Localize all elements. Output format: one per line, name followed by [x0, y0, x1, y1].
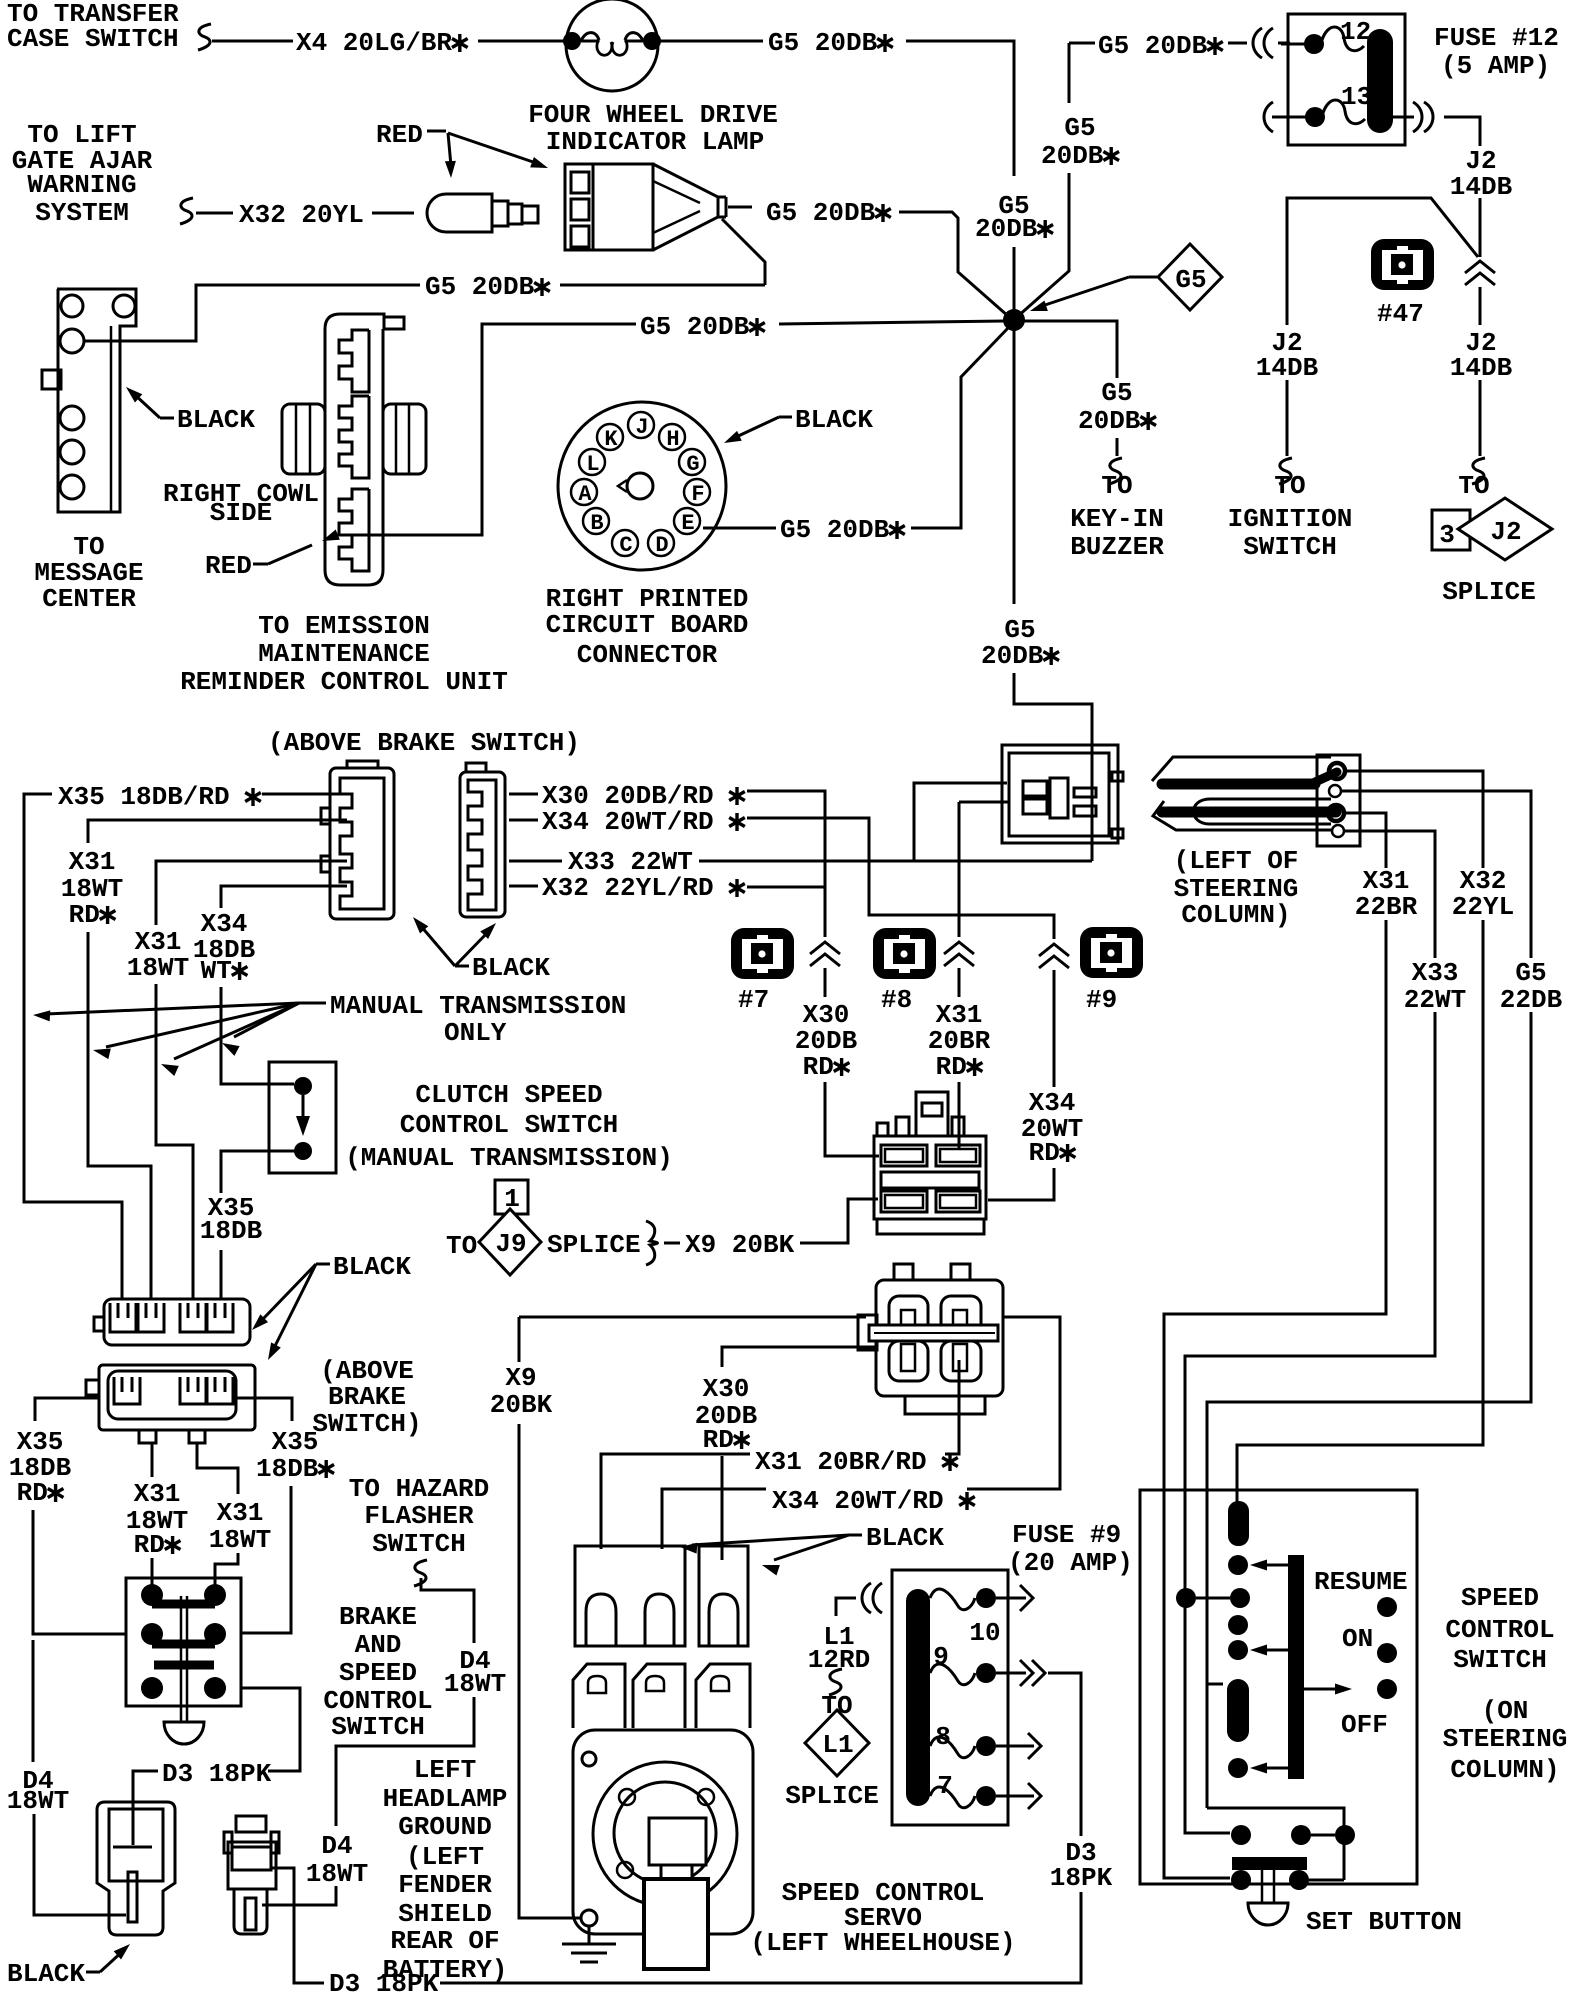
message center connector body — [57, 289, 136, 512]
wire X30 to chevrons and relay — [747, 791, 825, 937]
switch contact bars — [152, 1600, 215, 1609]
svg-text:J9: J9 — [495, 1229, 526, 1259]
junction node G5 splice dot — [1003, 309, 1025, 331]
bracket (X9) — [646, 1221, 658, 1265]
servo lower block — [644, 1879, 708, 1969]
svg-text:CASE SWITCH: CASE SWITCH — [7, 24, 179, 54]
svg-text:G5 20DB: G5 20DB — [780, 515, 890, 545]
svg-text:8: 8 — [935, 1722, 951, 1752]
wire X34 lower run to clutch switch — [221, 987, 294, 1084]
speed control connector (2x2) body — [1002, 745, 1118, 843]
fuse 9 left chevrons — [862, 1583, 871, 1613]
splice J2 symbol square 3 — [1432, 510, 1470, 550]
servo center block — [649, 1818, 706, 1865]
switch plunger cap — [164, 1722, 204, 1744]
lamp #9 icon — [1080, 927, 1143, 978]
svg-text:A: A — [578, 482, 592, 507]
bulb (four wheel drive lamp socket) — [427, 194, 492, 232]
svg-text:22DB: 22DB — [1500, 985, 1563, 1015]
svg-text:SPLICE: SPLICE — [1442, 577, 1536, 607]
wire X33 long run — [699, 860, 1092, 863]
svg-text:G5: G5 — [1064, 113, 1095, 143]
svg-text:GROUND: GROUND — [398, 1812, 492, 1842]
svg-text:D4: D4 — [321, 1831, 352, 1861]
svg-text:X32 20YL: X32 20YL — [239, 200, 364, 230]
lamp filament loops — [581, 33, 599, 41]
svg-text:18WT: 18WT — [209, 1525, 271, 1555]
svg-text:D3 18PK: D3 18PK — [162, 1759, 272, 1789]
svg-text:BLACK: BLACK — [472, 953, 550, 983]
splice J9 square 1 — [495, 1180, 528, 1214]
wire to X9 20BK — [664, 1242, 680, 1245]
wire fuse branch lower segment — [1017, 173, 1069, 317]
splice J9 diamond — [479, 1209, 541, 1275]
splice L1 diamond — [805, 1710, 869, 1776]
svg-text:20DB: 20DB — [1041, 141, 1104, 171]
svg-text:X31: X31 — [69, 847, 116, 877]
fuse bus bar — [1367, 29, 1393, 133]
svg-text:(MANUAL TRANSMISSION): (MANUAL TRANSMISSION) — [345, 1143, 673, 1173]
wire X35 RD* down to brake switch — [33, 1510, 126, 1634]
wire C2 left to X35 18DB RD* — [35, 1398, 100, 1421]
wire X32 down to switch — [1237, 920, 1483, 1503]
wire fuse 9 to L1 — [836, 1598, 856, 1616]
svg-text:D: D — [655, 533, 668, 558]
svg-text:J2: J2 — [1490, 517, 1521, 547]
manual transmission pointer lines — [299, 1002, 326, 1005]
steering connector terminals — [1329, 763, 1345, 779]
svg-text:CLUTCH SPEED: CLUTCH SPEED — [415, 1080, 602, 1110]
wire J2 left branch with diagonal — [1287, 198, 1478, 325]
wire junction up segment — [1013, 247, 1016, 312]
svg-text:SPEED: SPEED — [339, 1658, 417, 1688]
wire X31 RD* lower run — [88, 932, 151, 1299]
wire X35 18DB to connector pin — [220, 1250, 223, 1299]
fuse 9 pin 9 exit to D3 — [996, 1672, 1026, 1675]
svg-text:(5 AMP): (5 AMP) — [1441, 51, 1550, 81]
pcb center key — [627, 473, 653, 499]
RED arrow to lamp connector — [448, 133, 536, 163]
wire X31 22BR from terminal — [1344, 813, 1386, 868]
right connector pin comb — [468, 780, 496, 910]
pcb pin H — [659, 424, 685, 450]
svg-text:RD: RD — [703, 1425, 734, 1455]
wire to indicator lamp — [478, 40, 566, 43]
wire junction down — [1013, 330, 1016, 604]
indicator lamp connector body — [565, 164, 593, 250]
diagonal junction to circle-E branch — [911, 327, 1009, 528]
svg-text:COLUMN): COLUMN) — [1450, 1755, 1559, 1785]
left connector pin comb — [340, 778, 384, 909]
svg-text:18WT: 18WT — [444, 1669, 506, 1699]
svg-text:X34 20WT/RD: X34 20WT/RD — [542, 807, 714, 837]
svg-text:BLACK: BLACK — [333, 1252, 411, 1282]
steering cable bar 2 — [1162, 807, 1336, 818]
wire X35 18DB* down to brake switch right — [241, 1486, 291, 1633]
connector C2 above brake switch — [99, 1365, 255, 1430]
wire C2 pin1 to brake switch — [151, 1443, 154, 1477]
fuse 13 terminal dot — [1305, 107, 1325, 127]
hazard flasher squiggle — [414, 1560, 427, 1586]
svg-text:G5: G5 — [1515, 958, 1546, 988]
svg-text:WT: WT — [201, 956, 232, 986]
indicator lamp connector nose — [653, 164, 718, 250]
wire X31 18WT lower run — [156, 984, 193, 1299]
ground symbol — [562, 1943, 616, 1946]
wire X4 to lamp — [212, 40, 293, 43]
svg-text:10: 10 — [969, 1618, 1000, 1648]
servo terminal post 1 — [573, 1664, 625, 1728]
BLACK servo arrows — [849, 1534, 862, 1537]
wire X34 into block — [988, 1168, 1054, 1200]
block center tab — [916, 1092, 948, 1136]
svg-text:KEY-IN: KEY-IN — [1070, 504, 1164, 534]
svg-text:X31 20BR/RD: X31 20BR/RD — [755, 1447, 927, 1477]
svg-text:B: B — [590, 511, 603, 536]
svg-text:SYSTEM: SYSTEM — [35, 198, 129, 228]
svg-text:X9: X9 — [505, 1363, 536, 1393]
svg-text:BATTERY): BATTERY) — [383, 1955, 508, 1985]
wire key-in buzzer branch squiggle — [1109, 458, 1122, 484]
svg-text:18WT: 18WT — [7, 1786, 69, 1816]
svg-text:REAR OF: REAR OF — [390, 1926, 499, 1956]
svg-text:RD: RD — [936, 1052, 967, 1082]
set button cap — [1248, 1903, 1288, 1925]
wire C2 pin2 jog to brake switch — [197, 1443, 238, 1494]
svg-text:OFF: OFF — [1341, 1710, 1388, 1740]
fuse 13 element wave — [1323, 100, 1365, 124]
RED arrow to bulb — [427, 130, 446, 133]
wire label to pin E — [703, 527, 776, 530]
svg-text:X33: X33 — [1412, 958, 1459, 988]
svg-text:ON: ON — [1342, 1624, 1373, 1654]
fuse #12 box — [1288, 14, 1405, 145]
svg-text:C: C — [619, 533, 632, 558]
block top tabs — [877, 1123, 888, 1136]
fuse 9 pin 7 exit — [996, 1795, 1034, 1798]
svg-text:20DB: 20DB — [975, 214, 1038, 244]
splice J2 diamond — [1458, 498, 1552, 560]
wire X31 18WT corner — [156, 861, 347, 925]
contact dot with arrow (resume) — [1228, 1555, 1248, 1575]
wire X34 staircase right — [747, 818, 1054, 939]
svg-text:18WT: 18WT — [306, 1859, 368, 1889]
svg-text:CONNECTOR: CONNECTOR — [577, 640, 718, 670]
switch contact capsule 1 — [1228, 1501, 1249, 1546]
svg-text:G5 20DB: G5 20DB — [425, 272, 535, 302]
svg-text:BLACK: BLACK — [795, 405, 873, 435]
svg-text:G5 20DB: G5 20DB — [640, 312, 750, 342]
wire G5 22DB from terminal — [1341, 791, 1531, 958]
svg-text:BLACK: BLACK — [7, 1959, 85, 1989]
svg-text:13: 13 — [1341, 82, 1372, 112]
svg-text:20DB: 20DB — [981, 641, 1044, 671]
wire D3 18PK long bottom run — [440, 1892, 1081, 1983]
svg-text:COLUMN): COLUMN) — [1181, 900, 1290, 930]
lamp #47 icon — [1371, 239, 1434, 290]
servo motor ring outer — [593, 1762, 737, 1906]
fuse 9 pin 10 exit — [996, 1597, 1026, 1600]
svg-text:G5: G5 — [1175, 265, 1206, 295]
BLACK arrows to connectors — [455, 965, 469, 968]
wire X31 20BR into block — [958, 802, 961, 937]
wire hazard to D4 18WT — [421, 1578, 474, 1643]
G5 splice diamond — [1158, 244, 1222, 310]
wire X34 corner — [221, 886, 347, 908]
wire X34 label to connector right — [967, 1317, 1060, 1489]
middle connector D4 18WT — [236, 1816, 266, 1832]
servo ring bolts — [619, 1789, 635, 1805]
steering cable bar 1 — [1162, 779, 1315, 790]
svg-text:20BK: 20BK — [490, 1390, 553, 1420]
wire X30 servo branch — [722, 1347, 876, 1367]
wire to fuse 12 upper corner — [1068, 43, 1071, 103]
fuse row2 left chevron — [1264, 102, 1273, 132]
wire X33 22WT from terminal — [1344, 831, 1435, 958]
svg-text:LEFT: LEFT — [414, 1755, 476, 1785]
svg-text:RD: RD — [803, 1052, 834, 1082]
svg-text:AND: AND — [355, 1630, 402, 1660]
emission right mounting boss — [383, 404, 426, 474]
wire X31 20BR/RD servo line — [601, 1454, 750, 1549]
svg-text:J: J — [635, 415, 648, 440]
off arrow and dot — [1304, 1688, 1340, 1691]
svg-text:HEADLAMP: HEADLAMP — [383, 1784, 508, 1814]
right printed circuit board connector circle — [558, 402, 726, 570]
svg-text:RED: RED — [376, 120, 423, 150]
servo motor ring inner — [614, 1782, 716, 1884]
clutch switch contacts — [294, 1077, 312, 1095]
svg-text:L: L — [586, 452, 599, 477]
svg-text:FLASHER: FLASHER — [364, 1501, 474, 1531]
svg-text:RED: RED — [205, 551, 252, 581]
steering column flat cable upper outline — [1152, 757, 1331, 781]
message center pins — [61, 295, 83, 317]
wire G5 label to junction (diagonal) — [899, 212, 1008, 316]
svg-text:ONLY: ONLY — [444, 1018, 507, 1048]
wire X9 20BK to relay block — [800, 1199, 878, 1243]
svg-text:BLACK: BLACK — [866, 1523, 944, 1553]
wire G5 to junction corner — [906, 41, 1014, 176]
wire G5 down to switch — [1207, 1012, 1531, 1808]
BLACK arrow to pcb circle — [779, 416, 792, 419]
svg-text:SWITCH): SWITCH) — [312, 1409, 421, 1439]
svg-text:SET BUTTON: SET BUTTON — [1306, 1907, 1462, 1937]
steering connector block — [1317, 755, 1360, 846]
wire TL pin to X33 line — [914, 783, 1007, 860]
fuse 9 pin 8 exit — [996, 1745, 1034, 1748]
svg-text:22WT: 22WT — [1404, 985, 1466, 1015]
wire X34 20WT/RD servo line — [662, 1489, 766, 1549]
wire clutch bottom to X35 18DB — [221, 1151, 294, 1193]
svg-text:14DB: 14DB — [1450, 353, 1513, 383]
X30 continuation chevrons — [810, 942, 840, 954]
svg-text:3: 3 — [1439, 520, 1455, 550]
servo terminal post 3 — [696, 1664, 750, 1728]
diagonal wire connector nose down to G5 wire — [722, 219, 765, 285]
BLACK arrows to C1 C2 — [316, 1263, 330, 1266]
svg-text:IGNITION: IGNITION — [1228, 504, 1353, 534]
svg-text:SWITCH: SWITCH — [1453, 1645, 1547, 1675]
servo small bolt hole — [582, 1752, 596, 1766]
pcb pin G — [679, 449, 705, 475]
svg-text:SPLICE: SPLICE — [785, 1781, 879, 1811]
message center side square — [42, 370, 61, 389]
svg-text:TO: TO — [1274, 471, 1305, 501]
svg-text:FUSE #9: FUSE #9 — [1012, 1520, 1121, 1550]
on dot — [1377, 1643, 1397, 1663]
wire message center to G5 line — [84, 285, 420, 341]
wire break squiggle (transfer case) — [198, 24, 211, 50]
svg-text:(LEFT WHEELHOUSE): (LEFT WHEELHOUSE) — [750, 1928, 1015, 1958]
wire X35 corner down-left — [24, 794, 122, 1299]
svg-text:RD: RD — [1029, 1138, 1060, 1168]
svg-text:WARNING: WARNING — [27, 170, 136, 200]
svg-text:7: 7 — [937, 1771, 953, 1801]
svg-text:F: F — [691, 482, 704, 507]
pcb pin J — [628, 412, 654, 438]
fuse 9 terminal dots — [976, 1588, 996, 1608]
contact dot pair — [1176, 1588, 1196, 1608]
svg-text:X31: X31 — [217, 1498, 264, 1528]
svg-text:BRAKE: BRAKE — [328, 1382, 406, 1412]
svg-text:G5 20DB: G5 20DB — [768, 28, 878, 58]
RED arrow to emission connector — [253, 563, 268, 566]
svg-text:#7: #7 — [738, 985, 769, 1015]
emission control connector body — [325, 314, 404, 585]
wire brake box lower right to D3 18PK — [241, 1688, 300, 1771]
resume dot — [1377, 1597, 1397, 1617]
svg-text:(ABOVE BRAKE SWITCH): (ABOVE BRAKE SWITCH) — [268, 728, 580, 758]
svg-text:RD: RD — [17, 1478, 48, 1508]
svg-text:X31: X31 — [134, 1479, 181, 1509]
svg-text:SPLICE: SPLICE — [547, 1230, 641, 1260]
wire D4 18WT into middle connector — [262, 1886, 336, 1905]
exit chevrons — [1413, 102, 1422, 132]
wire junction left to G5 label — [779, 321, 1005, 324]
BLACK arrow to connector — [86, 1971, 100, 1974]
inline connector chevrons (fuse 12 input) — [1253, 28, 1262, 58]
svg-text:X4 20LG/BR: X4 20LG/BR — [296, 28, 452, 58]
svg-text:INDICATOR LAMP: INDICATOR LAMP — [546, 127, 764, 157]
svg-text:CENTER: CENTER — [42, 584, 136, 614]
svg-text:BLACK: BLACK — [177, 405, 255, 435]
svg-text:18DB: 18DB — [200, 1216, 263, 1246]
4-pin cavities — [889, 1296, 928, 1338]
wire break squiggle (lift gate) — [180, 198, 193, 224]
brake switch connector left body — [330, 768, 394, 919]
contact dot 4 — [1228, 1615, 1248, 1635]
wire left branch to squiggle — [1286, 380, 1289, 456]
pcb pin A — [571, 479, 597, 505]
svg-text:TO EMISSION: TO EMISSION — [258, 611, 430, 641]
svg-text:SIDE: SIDE — [210, 498, 272, 528]
svg-text:X9 20BK: X9 20BK — [685, 1230, 795, 1260]
svg-text:G5: G5 — [1101, 378, 1132, 408]
svg-text:22YL: 22YL — [1452, 892, 1514, 922]
svg-text:FUSE #12: FUSE #12 — [1434, 23, 1559, 53]
wire C2 right to X35 18DB* — [236, 1398, 292, 1421]
svg-text:MANUAL TRANSMISSION: MANUAL TRANSMISSION — [330, 991, 626, 1021]
servo connector housing left — [575, 1546, 685, 1646]
speed control switch box — [1140, 1490, 1417, 1884]
svg-text:SWITCH: SWITCH — [331, 1712, 425, 1742]
servo body — [573, 1730, 753, 1934]
block terminal slots — [881, 1145, 927, 1166]
servo terminal post 2 — [633, 1664, 685, 1728]
wire X33 down to switch — [1185, 1012, 1435, 1833]
svg-text:22BR: 22BR — [1355, 892, 1418, 922]
svg-text:G5 20DB: G5 20DB — [766, 198, 876, 228]
contact dot with arrow (off) — [1228, 1758, 1248, 1778]
svg-text:X35: X35 — [272, 1427, 319, 1457]
switch terminal block body — [874, 1136, 986, 1219]
svg-text:SWITCH: SWITCH — [372, 1529, 466, 1559]
svg-text:L1: L1 — [822, 1730, 853, 1760]
svg-text:9: 9 — [933, 1642, 949, 1672]
svg-text:K: K — [604, 427, 618, 452]
contact dot with arrow (on) — [1228, 1640, 1248, 1660]
emission connector comb teeth — [339, 330, 369, 392]
brake switch connector right body — [460, 772, 505, 917]
svg-text:X30: X30 — [703, 1374, 750, 1404]
pcb pin F — [684, 479, 710, 505]
wire X30 into block — [825, 1082, 879, 1156]
servo ground terminal — [581, 1910, 597, 1926]
svg-text:RD: RD — [69, 900, 100, 930]
svg-text:#9: #9 — [1086, 985, 1117, 1015]
wire middle connector to D3 18PK bottom — [272, 1868, 324, 1983]
svg-text:14DB: 14DB — [1256, 353, 1319, 383]
svg-text:G: G — [686, 452, 699, 477]
svg-text:TO: TO — [1458, 471, 1489, 501]
wire rail to bottom contacts — [1207, 1808, 1344, 1880]
svg-text:(LEFT: (LEFT — [406, 1842, 484, 1872]
svg-text:TO: TO — [446, 1231, 477, 1261]
four wheel drive indicator lamp bulb circle — [566, 0, 658, 91]
brake and speed control switch box — [126, 1578, 241, 1706]
fuse 9 bus bar — [906, 1589, 930, 1806]
2x2 connector pins — [1023, 781, 1047, 814]
X34 continuation chevrons — [1039, 944, 1069, 956]
pcb pin D — [648, 530, 674, 556]
pcb pin L — [579, 449, 605, 475]
wire connector nose to G5 label — [728, 206, 752, 209]
svg-text:CONTROL SWITCH: CONTROL SWITCH — [400, 1110, 618, 1140]
svg-text:X34 20WT/RD: X34 20WT/RD — [772, 1486, 944, 1516]
wire right branch to squiggle — [1479, 380, 1482, 456]
wire to X32 20YL — [196, 212, 233, 215]
pcb pin B — [583, 508, 609, 534]
fuse 12 left chevron row1 wire — [1281, 43, 1306, 46]
svg-text:X35 18DB/RD: X35 18DB/RD — [58, 782, 230, 812]
wire X32 to bulb — [372, 212, 414, 215]
pcb pin E — [674, 508, 700, 534]
wire BL pin of connector to X31 vertical — [959, 801, 1009, 804]
wire diamond to junction with arrow — [1129, 276, 1157, 279]
connector lock bar — [869, 1325, 998, 1341]
switch plunger lines — [180, 1596, 183, 1722]
svg-text:(ON: (ON — [1482, 1696, 1529, 1726]
steering cable lower outline — [1153, 801, 1331, 830]
wire X35 to left connector — [262, 793, 347, 796]
svg-text:H: H — [666, 427, 679, 452]
fuse 12 terminal dot — [1304, 34, 1324, 54]
servo 4-pin connector shell — [876, 1280, 1003, 1396]
svg-text:20DB: 20DB — [1078, 406, 1141, 436]
wire D3 label into D4 connector — [133, 1771, 158, 1845]
svg-text:18WT: 18WT — [127, 953, 189, 983]
